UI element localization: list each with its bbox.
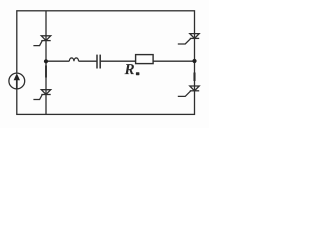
thyristor T4 — [178, 86, 199, 96]
node A junction dot — [44, 59, 48, 63]
wire capacitor to resistor — [100, 60, 135, 62]
thyristor T2 — [33, 90, 50, 100]
current source I1 — [9, 73, 25, 89]
wire inductor to capacitor — [79, 60, 97, 62]
wire right bus heavy segment — [193, 73, 195, 82]
thyristor T1 — [33, 36, 50, 46]
resistor R — [136, 55, 154, 64]
wire left inner heavy segment — [45, 66, 47, 78]
label R value — [124, 64, 139, 75]
capacitor C — [97, 55, 100, 69]
inductor L — [69, 58, 78, 61]
wire resistor to right bus — [153, 60, 194, 62]
wire middle branch left segment — [46, 60, 69, 62]
thyristor T3 — [178, 34, 199, 44]
wire outer frame — [17, 11, 195, 115]
wire left inner vertical — [45, 11, 47, 115]
node B junction dot — [192, 59, 196, 63]
